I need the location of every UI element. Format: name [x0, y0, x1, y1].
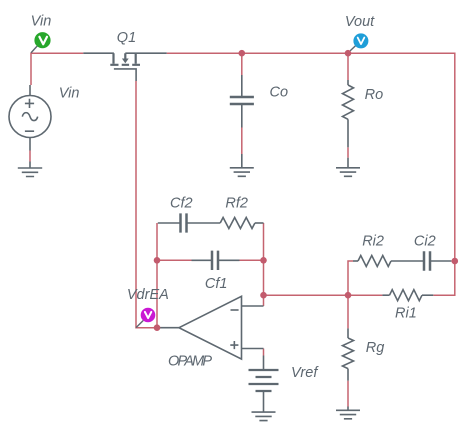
- wire Vin node: probe corner to Q1 source lead and down to source: [31, 53, 83, 85]
- capacitor Cf1: [192, 251, 240, 270]
- transistor Q1: [83, 53, 166, 81]
- battery Vref: [249, 356, 279, 392]
- node inverting input junction: [260, 292, 267, 299]
- op-amp U1 OPAMP: [157, 296, 264, 359]
- wire Rg top: [347, 295, 349, 328]
- svg-text:Ri1: Ri1: [395, 306, 417, 322]
- wire source bottom to ground: [29, 151, 31, 162]
- resistor Ri2: [353, 256, 391, 267]
- svg-text:Ci2: Ci2: [414, 234, 436, 250]
- capacitor Cf2: [158, 213, 220, 232]
- ground below Ro: [336, 158, 360, 177]
- ground below Co: [230, 154, 254, 176]
- node junction dots: [154, 50, 458, 331]
- wire Cf1 left: [157, 259, 192, 261]
- wire feedback right leg: [263, 223, 265, 306]
- resistor Rg: [343, 328, 354, 380]
- wire Vout top rail: Q1 drain to right edge, down right side, to Ri1: [167, 53, 455, 295]
- node Co-Vout junction: [239, 50, 246, 57]
- svg-text:OPAMP: OPAMP: [168, 354, 212, 370]
- capacitor Ci2: [391, 251, 451, 270]
- wire Co top: [241, 53, 243, 75]
- svg-text:Co: Co: [270, 84, 289, 100]
- svg-text:Cf1: Cf1: [205, 276, 228, 292]
- wire Cf1 right: [240, 259, 264, 261]
- node Ci2 right junction: [452, 258, 459, 265]
- wire Q1 gate to opamp output node: [136, 81, 157, 328]
- svg-text:VdrEA: VdrEA: [127, 287, 169, 303]
- voltage source Vin: [9, 85, 51, 151]
- probe Vin (green voltmeter): [31, 32, 50, 52]
- node Cf1 left junction: [154, 257, 161, 264]
- svg-text:Ro: Ro: [365, 87, 384, 103]
- ground below Vin source: [18, 162, 42, 177]
- probe VdrEA (magenta voltmeter): [136, 308, 155, 328]
- svg-text:Ri2: Ri2: [362, 234, 384, 250]
- capacitor Co: [230, 75, 254, 128]
- ground below Rg: [336, 407, 360, 419]
- wire Ci2 right stub: [451, 260, 455, 262]
- svg-text:Q1: Q1: [117, 30, 136, 46]
- svg-text:Vout: Vout: [345, 14, 375, 30]
- resistor Ro: [343, 80, 354, 147]
- node VdrEA junction: [154, 324, 161, 331]
- wire Rg bottom to ground: [347, 381, 349, 407]
- wire Ri2 branch riser: [348, 261, 353, 295]
- resistor Rf2: [220, 218, 263, 229]
- probe Vout (blue voltmeter): [351, 33, 369, 50]
- ground below Vref battery: [252, 391, 276, 421]
- svg-text:Vref: Vref: [291, 365, 319, 381]
- node Cf1 right junction: [260, 257, 267, 264]
- svg-text:Rg: Rg: [366, 340, 385, 356]
- svg-text:Vin: Vin: [31, 13, 52, 29]
- svg-text:Cf2: Cf2: [170, 196, 193, 212]
- svg-text:Rf2: Rf2: [225, 196, 248, 212]
- node Ri/Rg junction: [345, 292, 352, 299]
- wire Ro bottom: [347, 147, 349, 157]
- resistor Ri1: [382, 290, 433, 301]
- wire feedback left leg: [156, 223, 158, 328]
- svg-text:Vin: Vin: [59, 85, 80, 101]
- wire Ri1 left: [348, 294, 382, 296]
- wire opamp + input to Vref battery: [263, 349, 265, 356]
- wire Co bottom: [241, 128, 243, 155]
- node Vout junction: [345, 50, 352, 57]
- wire Ro top: [347, 53, 349, 80]
- wire inverting input to Ri node: [264, 294, 349, 296]
